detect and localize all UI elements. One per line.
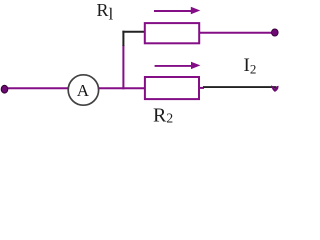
resistor R1 <box>145 23 199 43</box>
current arrow over R1 <box>154 7 200 14</box>
wire R2 purple stub <box>199 87 204 89</box>
node top-right terminal <box>272 29 279 36</box>
svg-text:A: A <box>77 81 90 100</box>
resistor R2 <box>145 77 199 99</box>
wire R1 to top-right terminal <box>199 32 272 34</box>
wire horizontal black to R1 <box>122 31 145 33</box>
wire R2 to bottom-right terminal (black) <box>203 86 276 88</box>
node bottom-right terminal <box>271 85 279 91</box>
ammeter A <box>68 75 98 105</box>
current arrow over R2 <box>155 62 201 69</box>
wire ammeter to junction and R2 <box>99 87 145 89</box>
node left terminal <box>1 85 8 93</box>
wire main left (battery terminal to ammeter) <box>4 87 69 89</box>
wire vertical purple (junction up) <box>122 45 124 89</box>
wire vertical black (upper part) <box>122 31 124 46</box>
